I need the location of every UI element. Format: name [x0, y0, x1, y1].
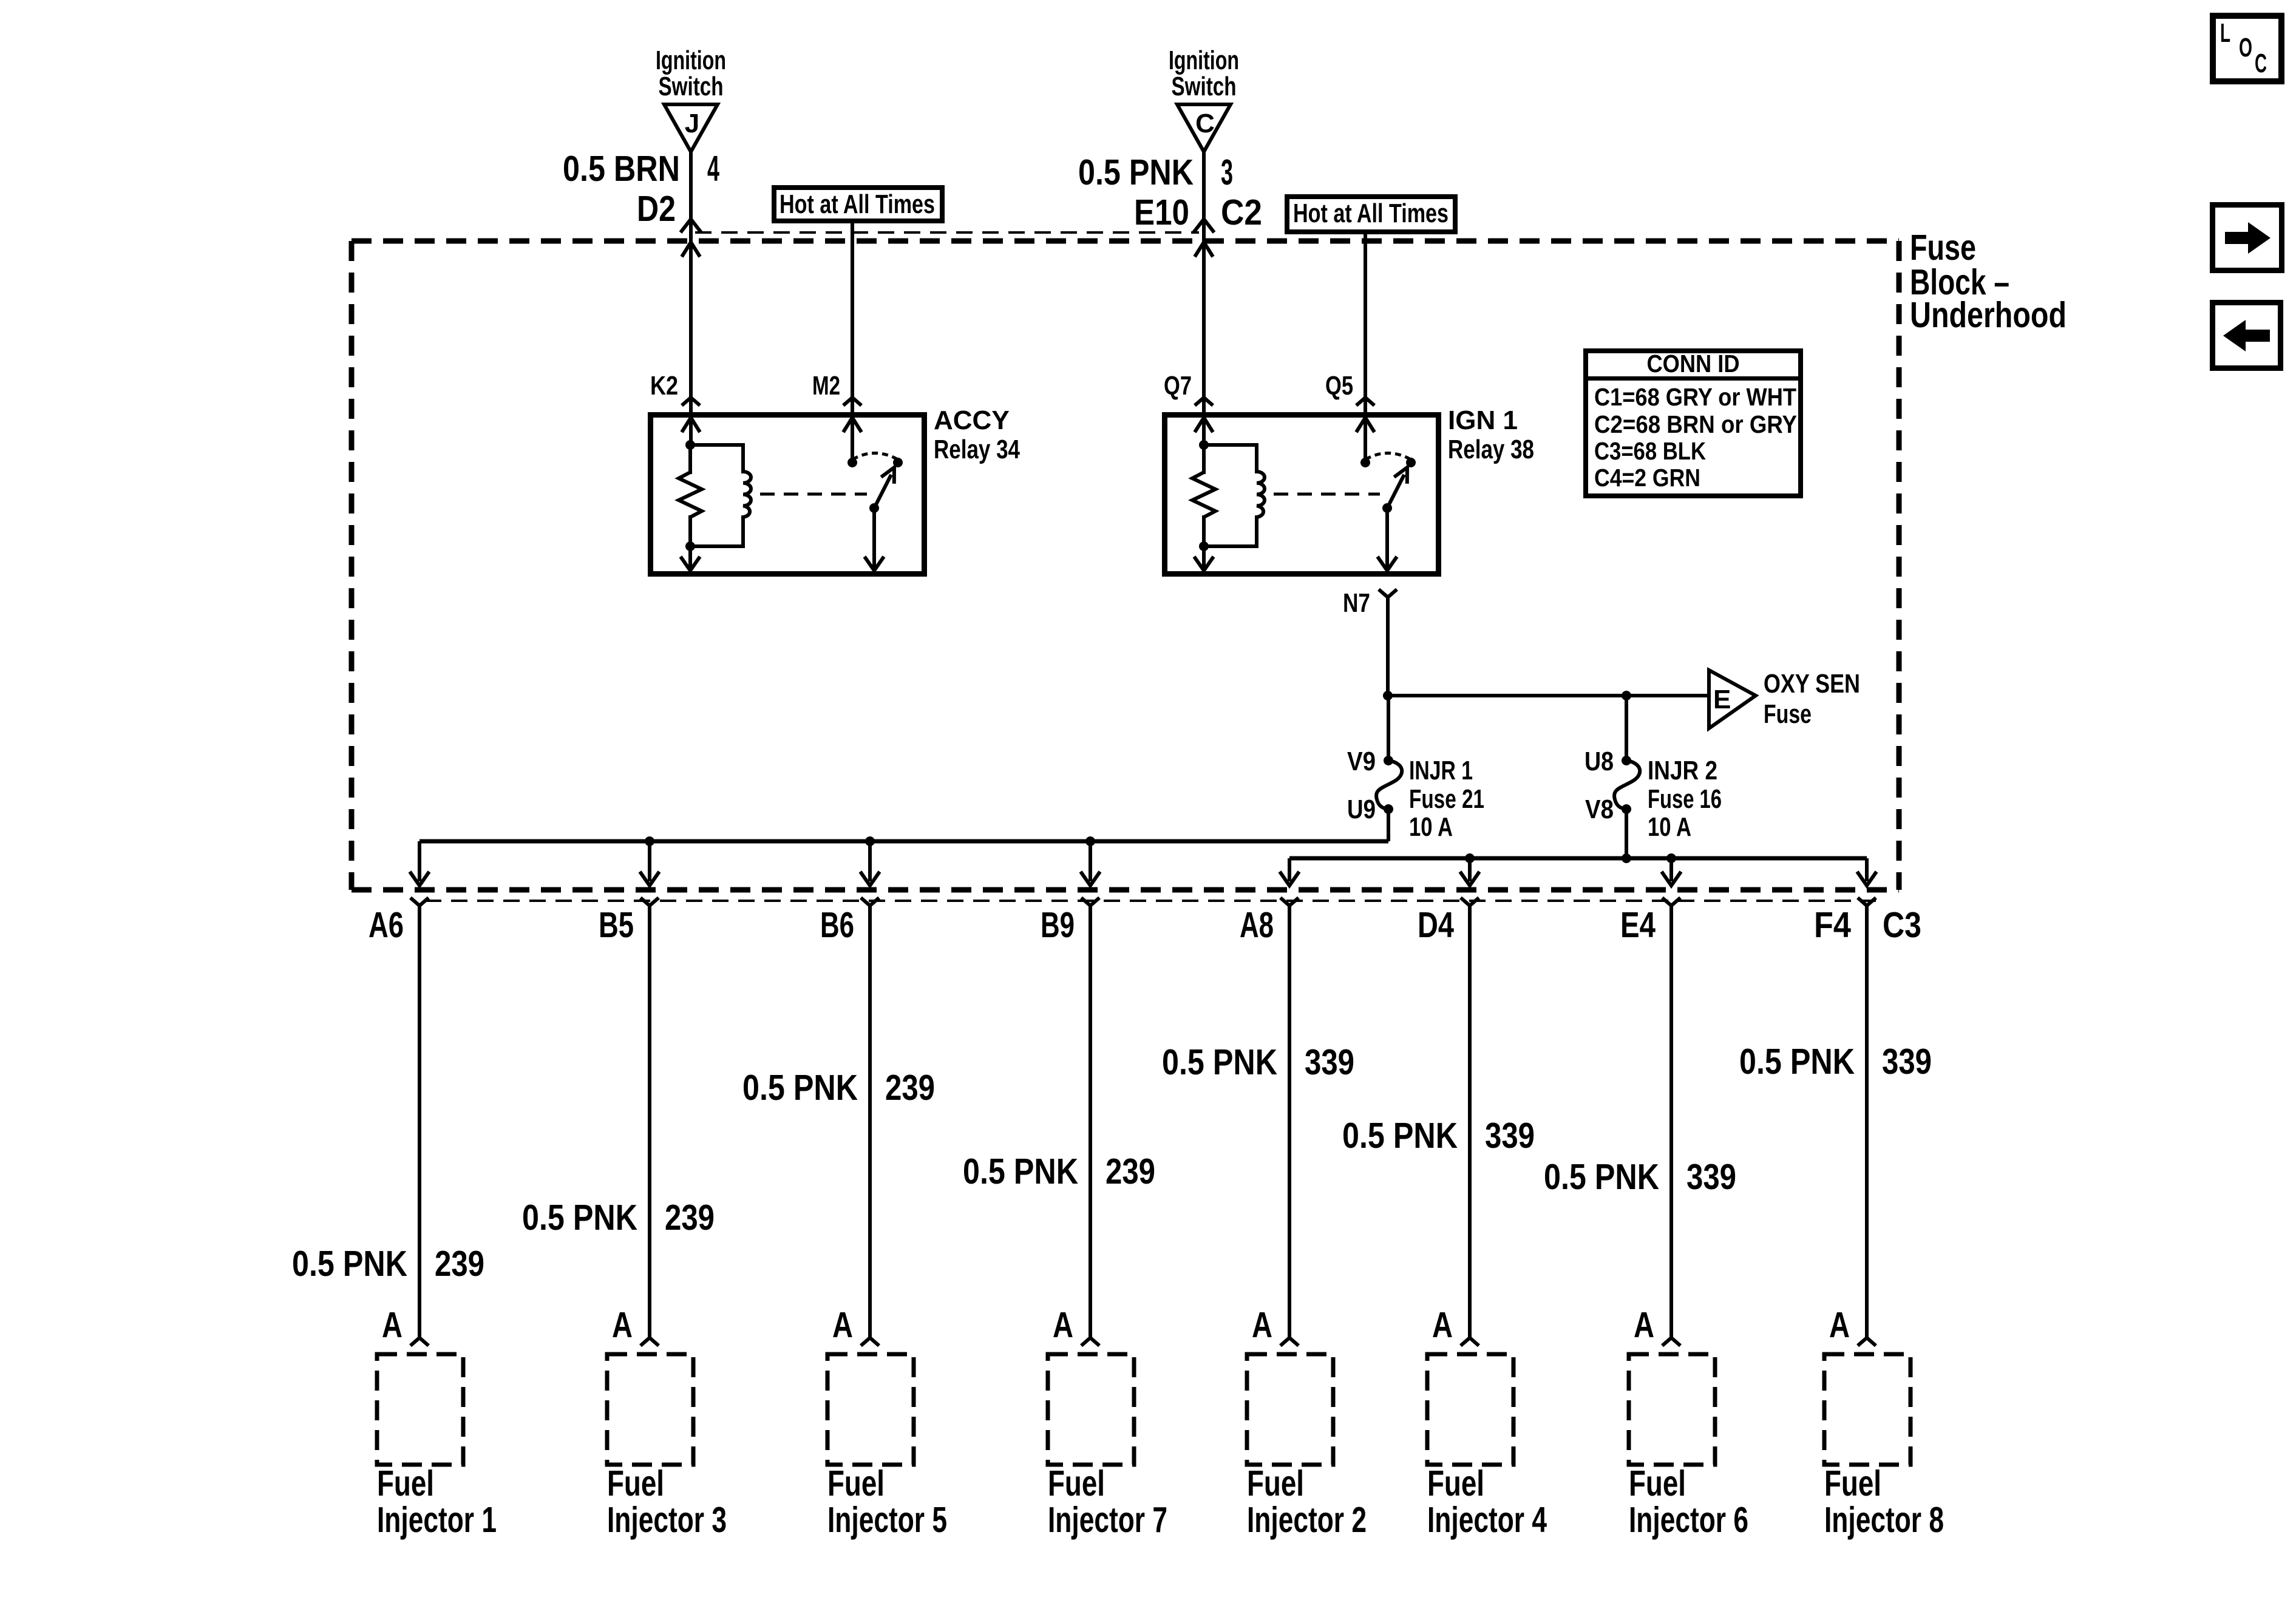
svg-text:O: O	[2239, 33, 2252, 63]
svg-text:C: C	[1195, 109, 1215, 138]
svg-text:A6: A6	[369, 904, 404, 945]
svg-text:C3: C3	[1883, 904, 1921, 945]
svg-text:Fuel: Fuel	[1427, 1463, 1484, 1503]
svg-text:Q5: Q5	[1325, 371, 1353, 401]
svg-text:F4: F4	[1814, 904, 1851, 945]
svg-text:239: 239	[885, 1067, 935, 1108]
svg-text:C1=68 GRY or WHT: C1=68 GRY or WHT	[1594, 383, 1796, 411]
svg-text:A: A	[382, 1304, 402, 1345]
svg-text:0.5 PNK: 0.5 PNK	[963, 1151, 1078, 1192]
svg-text:E: E	[1713, 685, 1731, 714]
svg-text:Hot at All Times: Hot at All Times	[1293, 198, 1449, 228]
svg-text:0.5 BRN: 0.5 BRN	[563, 148, 680, 189]
svg-text:Fuel: Fuel	[1824, 1463, 1881, 1503]
svg-text:B9: B9	[1041, 904, 1075, 945]
svg-text:U9: U9	[1347, 795, 1376, 824]
svg-text:ACCY: ACCY	[934, 405, 1010, 435]
svg-text:Fuel: Fuel	[827, 1463, 885, 1503]
svg-text:A: A	[832, 1304, 853, 1345]
svg-text:CONN ID: CONN ID	[1647, 350, 1740, 378]
svg-text:10 A: 10 A	[1648, 812, 1691, 842]
svg-text:Injector 6: Injector 6	[1629, 1499, 1748, 1540]
svg-text:339: 339	[1305, 1042, 1354, 1082]
svg-text:339: 339	[1882, 1041, 1932, 1082]
svg-text:0.5 PNK: 0.5 PNK	[742, 1067, 858, 1108]
svg-text:Injector 3: Injector 3	[607, 1499, 727, 1540]
svg-text:Fuel: Fuel	[607, 1463, 664, 1503]
svg-text:0.5 PNK: 0.5 PNK	[292, 1243, 407, 1284]
svg-text:0.5 PNK: 0.5 PNK	[1342, 1115, 1458, 1156]
svg-text:Ignition: Ignition	[1169, 46, 1239, 75]
svg-text:INJR 2: INJR 2	[1648, 756, 1717, 785]
svg-text:339: 339	[1686, 1156, 1736, 1197]
svg-text:A: A	[1053, 1304, 1073, 1345]
svg-text:IGN 1: IGN 1	[1448, 405, 1518, 435]
svg-text:Injector 2: Injector 2	[1247, 1499, 1367, 1540]
svg-text:Injector 5: Injector 5	[827, 1499, 947, 1540]
svg-text:L: L	[2220, 18, 2230, 48]
svg-text:A8: A8	[1240, 904, 1274, 945]
svg-text:239: 239	[1106, 1151, 1155, 1192]
svg-text:Ignition: Ignition	[656, 46, 726, 75]
svg-text:Fuel: Fuel	[1048, 1463, 1105, 1503]
svg-text:Fuel: Fuel	[377, 1463, 434, 1503]
svg-text:Q7: Q7	[1164, 371, 1192, 401]
svg-text:0.5 PNK: 0.5 PNK	[522, 1197, 637, 1238]
svg-text:Underhood: Underhood	[1910, 294, 2067, 335]
svg-text:C: C	[2255, 49, 2267, 78]
svg-text:A: A	[612, 1304, 633, 1345]
svg-text:0.5 PNK: 0.5 PNK	[1544, 1156, 1659, 1197]
svg-text:10 A: 10 A	[1409, 812, 1453, 842]
svg-text:0.5 PNK: 0.5 PNK	[1078, 152, 1194, 192]
svg-text:C3=68 BLK: C3=68 BLK	[1594, 437, 1706, 465]
svg-text:Switch: Switch	[1172, 72, 1237, 101]
svg-text:A: A	[1432, 1304, 1453, 1345]
svg-text:A: A	[1252, 1304, 1272, 1345]
svg-text:Injector 8: Injector 8	[1824, 1499, 1944, 1540]
svg-text:Injector 7: Injector 7	[1048, 1499, 1167, 1540]
svg-text:Fuse 16: Fuse 16	[1648, 784, 1722, 814]
svg-text:D2: D2	[637, 188, 676, 229]
svg-text:Injector 4: Injector 4	[1427, 1499, 1547, 1540]
svg-text:D4: D4	[1418, 904, 1454, 945]
svg-text:0.5 PNK: 0.5 PNK	[1162, 1042, 1277, 1082]
svg-text:E4: E4	[1620, 904, 1656, 945]
svg-text:Fuse 21: Fuse 21	[1409, 784, 1484, 814]
svg-text:239: 239	[435, 1243, 484, 1284]
svg-text:E10: E10	[1134, 192, 1189, 232]
svg-text:239: 239	[665, 1197, 715, 1238]
svg-text:A: A	[1829, 1304, 1850, 1345]
svg-text:N7: N7	[1343, 588, 1370, 618]
svg-text:Relay 38: Relay 38	[1448, 435, 1534, 464]
svg-text:V8: V8	[1585, 795, 1614, 824]
svg-text:3: 3	[1221, 152, 1233, 192]
svg-text:Fuse: Fuse	[1764, 699, 1812, 729]
svg-text:C2: C2	[1221, 192, 1262, 232]
svg-text:M2: M2	[812, 371, 840, 401]
svg-text:Injector 1: Injector 1	[377, 1499, 497, 1540]
svg-text:A: A	[1634, 1304, 1654, 1345]
svg-text:339: 339	[1485, 1115, 1535, 1156]
svg-text:Fuel: Fuel	[1629, 1463, 1686, 1503]
svg-text:OXY SEN: OXY SEN	[1764, 669, 1860, 699]
svg-text:B5: B5	[599, 904, 634, 945]
svg-text:Relay 34: Relay 34	[934, 435, 1020, 464]
svg-text:V9: V9	[1347, 747, 1376, 776]
svg-text:B6: B6	[820, 904, 854, 945]
svg-text:U8: U8	[1584, 747, 1614, 776]
svg-text:K2: K2	[650, 371, 678, 401]
svg-text:Hot at All Times: Hot at All Times	[779, 189, 935, 219]
svg-text:4: 4	[707, 148, 719, 189]
svg-text:C2=68 BRN or GRY: C2=68 BRN or GRY	[1594, 410, 1797, 438]
svg-text:0.5 PNK: 0.5 PNK	[1739, 1041, 1855, 1082]
svg-text:Switch: Switch	[659, 72, 724, 101]
svg-text:C4=2 GRN: C4=2 GRN	[1594, 464, 1700, 492]
svg-text:Fuel: Fuel	[1247, 1463, 1304, 1503]
svg-text:INJR 1: INJR 1	[1409, 756, 1473, 785]
svg-text:J: J	[685, 109, 699, 138]
